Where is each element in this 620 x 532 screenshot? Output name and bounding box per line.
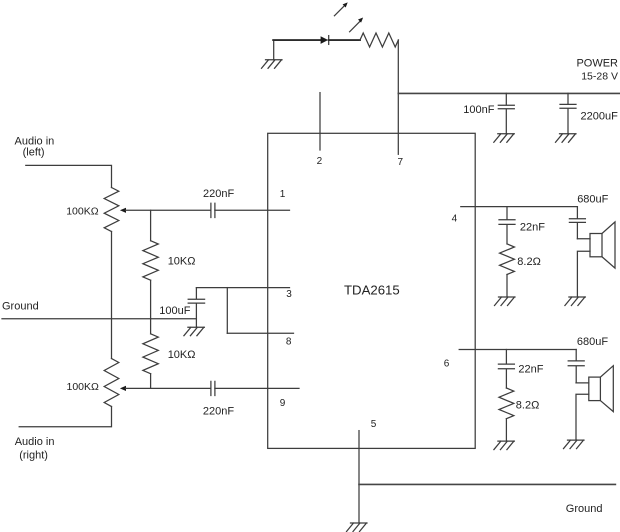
ground rail (bottom) — [359, 483, 615, 485]
potentiometer P1 100K — [104, 188, 119, 232]
capacitor C9 680uF — [568, 350, 584, 383]
ground rail (left) — [2, 318, 196, 320]
wiper arrow P2 — [120, 386, 126, 391]
capacitor C8 22nF — [498, 350, 514, 389]
potentiometer P2 100K — [104, 359, 119, 407]
LED D1 — [321, 36, 329, 44]
svg-text:100KΩ: 100KΩ — [67, 381, 100, 393]
wire (audio left) — [26, 165, 112, 187]
svg-text:10KΩ: 10KΩ — [168, 255, 196, 267]
ground (LED return) — [262, 60, 283, 69]
wire — [273, 41, 275, 60]
wire (pot2 bottom) — [19, 407, 111, 427]
svg-text:100uF: 100uF — [159, 305, 190, 317]
capacitor C3 220nF — [211, 203, 215, 217]
svg-text:Ground: Ground — [2, 301, 39, 313]
svg-text:9: 9 — [280, 398, 286, 409]
ground — [494, 134, 515, 143]
capacitor C5 220nF — [211, 381, 215, 395]
wire (pin 8 net) — [227, 332, 293, 334]
wire (wiper2 to C5) — [126, 387, 211, 389]
capacitor C6 22nF — [499, 207, 515, 244]
svg-text:TDA2615: TDA2615 — [344, 283, 400, 298]
capacitor C2 2200uF — [560, 93, 576, 133]
svg-text:7: 7 — [398, 157, 404, 168]
wire (R5 to gnd) — [505, 419, 507, 441]
speaker LS1 — [577, 239, 590, 297]
wire (pin3 to pin8 link) — [226, 288, 228, 334]
speaker LS2 — [576, 383, 589, 440]
ground — [565, 297, 586, 306]
svg-text:5: 5 — [371, 419, 377, 430]
capacitor C1 100nF — [498, 93, 514, 133]
ground — [495, 297, 516, 306]
resistor R4 8.2ohm — [500, 244, 515, 275]
svg-text:220nF: 220nF — [203, 188, 234, 200]
wiper arrow P1 — [120, 208, 126, 213]
wire (wiper1 to C3) — [126, 209, 211, 211]
svg-text:15-28 V: 15-28 V — [581, 70, 618, 82]
ground — [494, 441, 515, 450]
wire (pin 6 net) — [459, 349, 576, 351]
wire — [329, 39, 360, 41]
svg-text:3: 3 — [286, 289, 292, 300]
wire (pin 4 net) — [461, 206, 578, 208]
wire (pin 5 to gnd) — [358, 431, 360, 523]
power rail — [398, 92, 620, 94]
pin 2 stub — [319, 93, 321, 150]
resistor R2 10K leads — [150, 210, 152, 318]
resistor R3 10K leads — [150, 319, 152, 389]
svg-text:100nF: 100nF — [463, 104, 494, 116]
capacitor C4 100uF — [188, 288, 204, 327]
op-amp U1 TDA2615 body — [268, 133, 476, 448]
resistor R5 8.2ohm — [499, 388, 514, 419]
wire (C3 to pin 1) — [215, 209, 290, 211]
ground — [184, 327, 205, 336]
wire (R4 to gnd) — [506, 275, 508, 297]
svg-text:8: 8 — [286, 337, 292, 348]
resistor R3 10K — [143, 334, 158, 374]
capacitor C7 680uF — [569, 207, 585, 239]
wire (C5 to pin 9) — [215, 387, 299, 389]
svg-text:6: 6 — [444, 358, 450, 369]
svg-text:POWER: POWER — [576, 57, 618, 69]
svg-text:1: 1 — [280, 189, 286, 200]
svg-text:Ground: Ground — [566, 503, 603, 515]
svg-text:220nF: 220nF — [203, 405, 234, 417]
svg-text:(right): (right) — [19, 449, 48, 461]
svg-text:8.2Ω: 8.2Ω — [517, 256, 541, 268]
svg-text:8.2Ω: 8.2Ω — [516, 399, 540, 411]
wire (pin 7 feed) — [397, 40, 399, 154]
resistor R2 10K — [143, 241, 158, 281]
resistor R1 (LED series) — [360, 33, 398, 47]
svg-text:680uF: 680uF — [577, 194, 608, 206]
svg-text:2: 2 — [317, 156, 323, 167]
svg-text:680uF: 680uF — [577, 336, 608, 348]
ground — [347, 523, 368, 532]
ground — [564, 440, 585, 449]
svg-text:10KΩ: 10KΩ — [168, 349, 196, 361]
svg-text:2200uF: 2200uF — [581, 111, 619, 123]
svg-text:Audio in: Audio in — [15, 436, 55, 448]
svg-text:4: 4 — [452, 214, 458, 225]
svg-text:22nF: 22nF — [518, 364, 543, 376]
ground — [556, 134, 577, 143]
svg-text:22nF: 22nF — [520, 222, 545, 234]
wire (pot1 bottom to rail) — [111, 232, 113, 359]
wire (pin 3 net) — [196, 287, 289, 289]
svg-text:100KΩ: 100KΩ — [66, 206, 99, 218]
svg-text:(left): (left) — [23, 147, 45, 159]
